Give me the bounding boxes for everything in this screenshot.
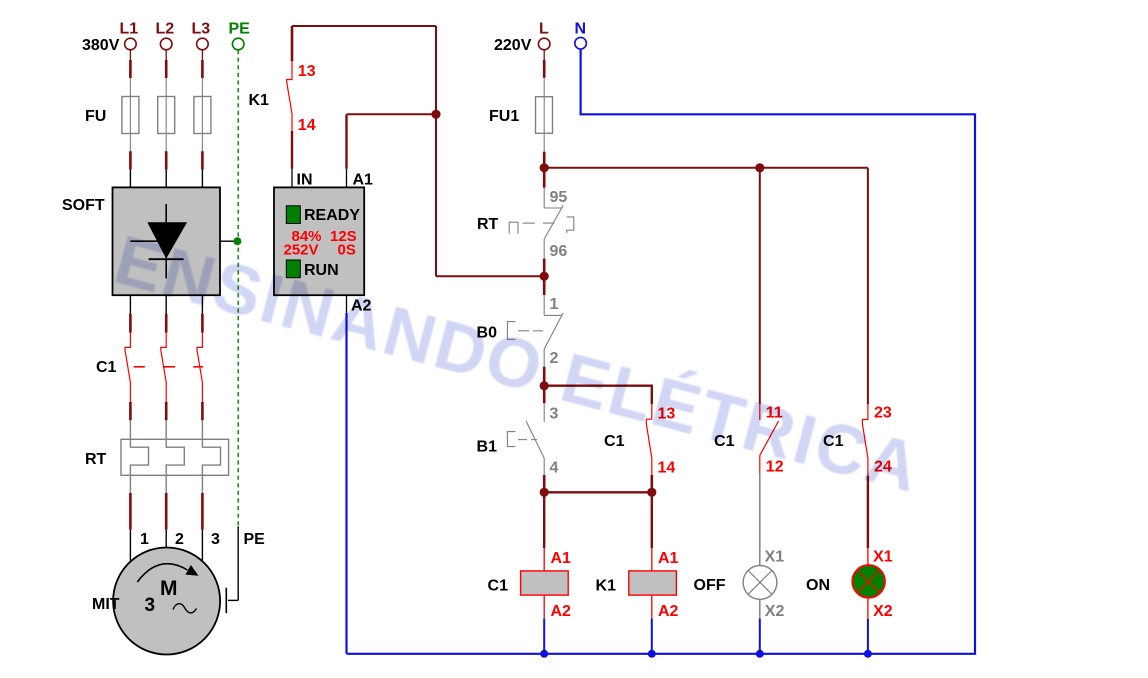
svg-text:L1: L1 [120, 21, 139, 38]
svg-text:M: M [160, 577, 178, 600]
svg-text:K1: K1 [249, 92, 270, 109]
svg-text:95: 95 [550, 189, 568, 206]
svg-text:1: 1 [140, 531, 149, 548]
svg-text:L2: L2 [156, 21, 175, 38]
svg-text:A1: A1 [551, 550, 572, 567]
svg-text:14: 14 [658, 460, 676, 477]
svg-text:FU: FU [85, 108, 106, 125]
svg-text:13: 13 [298, 63, 316, 80]
svg-text:READY: READY [304, 207, 360, 224]
svg-text:A2: A2 [658, 603, 679, 620]
svg-text:L3: L3 [192, 21, 211, 38]
svg-text:A1: A1 [658, 550, 679, 567]
svg-text:X2: X2 [873, 603, 893, 620]
svg-text:IN: IN [297, 172, 313, 189]
svg-text:ON: ON [806, 577, 830, 594]
svg-text:380V: 380V [82, 37, 120, 54]
svg-text:L: L [539, 21, 549, 38]
svg-text:A1: A1 [353, 172, 374, 189]
svg-text:C1: C1 [96, 359, 117, 376]
svg-text:RT: RT [477, 216, 499, 233]
svg-text:RT: RT [85, 451, 107, 468]
svg-text:K1: K1 [596, 578, 617, 595]
svg-text:PE: PE [244, 531, 266, 548]
svg-text:14: 14 [298, 117, 316, 134]
svg-text:A2: A2 [551, 603, 572, 620]
svg-text:X1: X1 [873, 549, 893, 566]
svg-text:X1: X1 [765, 549, 785, 566]
svg-text:96: 96 [550, 243, 568, 260]
svg-text:OFF: OFF [694, 577, 726, 594]
svg-text:3: 3 [211, 531, 220, 548]
svg-text:252V: 252V [284, 242, 319, 259]
svg-text:PE: PE [229, 21, 251, 38]
svg-text:2: 2 [175, 531, 184, 548]
svg-text:X2: X2 [765, 603, 785, 620]
svg-text:N: N [575, 21, 587, 38]
svg-text:MIT: MIT [92, 596, 120, 613]
svg-text:C1: C1 [604, 433, 625, 450]
svg-text:0S: 0S [338, 242, 356, 259]
svg-text:4: 4 [550, 460, 559, 477]
svg-text:SOFT: SOFT [62, 197, 105, 214]
svg-text:FU1: FU1 [489, 108, 519, 125]
svg-text:B1: B1 [477, 439, 498, 456]
svg-text:220V: 220V [494, 37, 532, 54]
svg-text:C1: C1 [488, 578, 509, 595]
svg-text:1: 1 [550, 296, 559, 313]
svg-text:3: 3 [145, 595, 156, 616]
